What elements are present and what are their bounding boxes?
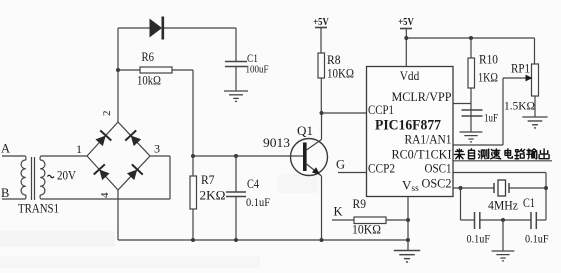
svg-text:4MHz: 4MHz (488, 198, 518, 213)
svg-text:9013: 9013 (263, 136, 290, 150)
svg-text:1: 1 (76, 142, 82, 156)
svg-text:K: K (334, 205, 343, 219)
svg-text:TRANS1: TRANS1 (18, 202, 59, 216)
svg-text:R10: R10 (479, 53, 498, 67)
svg-text:0.1uF: 0.1uF (525, 232, 549, 246)
svg-text:MCLR/VPP: MCLR/VPP (392, 89, 452, 104)
svg-text:10kΩ: 10kΩ (137, 74, 161, 88)
svg-text:RC0/T1CKI: RC0/T1CKI (392, 147, 452, 162)
svg-text:OSC1: OSC1 (425, 161, 452, 176)
svg-text:C1: C1 (523, 196, 535, 210)
svg-text:2: 2 (101, 111, 113, 117)
svg-text:1KΩ: 1KΩ (478, 71, 498, 85)
svg-text:R6: R6 (142, 50, 155, 64)
svg-text:A: A (1, 142, 10, 156)
svg-text:+5V: +5V (313, 17, 329, 28)
svg-text:RP1: RP1 (511, 62, 530, 76)
svg-text:OSC2: OSC2 (422, 176, 452, 191)
svg-text:2KΩ: 2KΩ (200, 189, 226, 203)
svg-text:R8: R8 (327, 53, 341, 67)
svg-text:R7: R7 (201, 173, 215, 187)
svg-text:20V: 20V (57, 169, 76, 183)
svg-text:CCP2: CCP2 (368, 161, 395, 176)
svg-text:10KΩ: 10KΩ (352, 223, 381, 237)
svg-text:Q1: Q1 (297, 124, 313, 138)
svg-text:+5V: +5V (398, 17, 414, 28)
svg-text:100uF: 100uF (246, 64, 269, 76)
svg-text:G: G (336, 158, 345, 172)
svg-text:4: 4 (99, 192, 111, 198)
svg-text:0.1uF: 0.1uF (246, 195, 270, 209)
svg-text:1uF: 1uF (484, 111, 498, 125)
svg-text:CCP1: CCP1 (368, 102, 394, 117)
svg-text:R9: R9 (353, 197, 367, 211)
svg-text:0.1uF: 0.1uF (467, 232, 491, 246)
svg-text:RA1/AN1: RA1/AN1 (405, 132, 452, 147)
svg-text:10KΩ: 10KΩ (327, 67, 354, 81)
svg-text:3: 3 (154, 142, 160, 156)
svg-text:C4: C4 (247, 177, 260, 191)
svg-text:B: B (1, 186, 9, 200)
svg-text:Vdd: Vdd (400, 68, 420, 83)
svg-text:1.5KΩ: 1.5KΩ (504, 99, 535, 113)
